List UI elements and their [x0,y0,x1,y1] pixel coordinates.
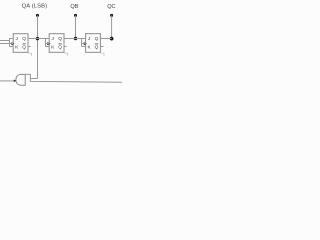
wire FF3 JK tie [81,39,83,47]
node QA terminal dot [36,14,39,17]
wire QA to FF2 J [38,38,50,40]
flip-flop FF2 labels [51,36,62,50]
wire G1 output to left edge [0,80,14,82]
wire FF2 clock stub [46,43,50,45]
wire FF2 Q to QB node [64,38,76,40]
flip-flop FF2 box [49,34,64,53]
wire FF1 K stub [10,46,14,48]
wire FF3 Qbar stub [100,46,103,48]
gate AND G1 body (pointing left) [16,74,25,85]
flip-flop FF2 clock triangle [47,42,50,45]
flip-flop FF2 Qbar overbar [59,43,62,45]
wire FF3 clock stub [82,43,86,45]
flip-flop FF1 labels [15,36,26,50]
flip-flop FF1 Qbar overbar [23,43,26,45]
svg-text:Q: Q [95,36,99,42]
FF2 box scan shadow [64,53,67,56]
wire FF2 K stub [46,46,50,48]
wire FF1 JK tie [9,38,11,46]
wire FF1 Qbar stub [28,46,31,48]
svg-text:QA (LSB): QA (LSB) [22,3,47,9]
wire QC vertical [111,15,113,38]
wire QB vertical [75,15,77,38]
node QB terminal dot [74,14,77,17]
wire FF1 Q to QA node [28,38,38,40]
wire QB to FF3 J [76,38,86,40]
FF1 box scan shadow [28,53,31,56]
wire clock bus from right edge to G1 top input [25,74,122,82]
svg-text:Q: Q [58,44,62,50]
flip-flop FF3 clock triangle [84,42,87,45]
wire FF1 clock feed from left edge [0,43,13,45]
gate G1 output arrowhead [14,80,17,83]
junction QA [36,37,39,40]
node QC terminal dot [110,14,113,17]
flip-flop FF1 box [13,34,28,53]
flip-flop FF3 Qbar overbar [95,43,98,45]
wire FF3 K stub [82,46,86,48]
flip-flop FF3 box [86,34,101,53]
svg-text:QC: QC [107,4,115,10]
FF3 box scan shadow [101,53,104,56]
wire FF2 Qbar stub [64,46,67,48]
flip-flop FF1 clock triangle [11,42,14,45]
wire QA down to G1 input [30,78,37,80]
svg-text:Q: Q [22,44,26,50]
svg-text:Q: Q [95,44,99,50]
flip-flop FF3 labels [87,36,98,50]
wire QA vertical [37,15,39,78]
wire FF3 Q to QC node [100,38,111,40]
svg-text:Q: Q [22,36,26,42]
junction QB [74,37,77,40]
junction QC [110,37,114,41]
wire FF2 JK tie [45,39,47,47]
svg-text:QB: QB [70,4,78,10]
wire FF1 J/K feed from left edge [0,39,13,41]
svg-text:Q: Q [58,36,62,42]
